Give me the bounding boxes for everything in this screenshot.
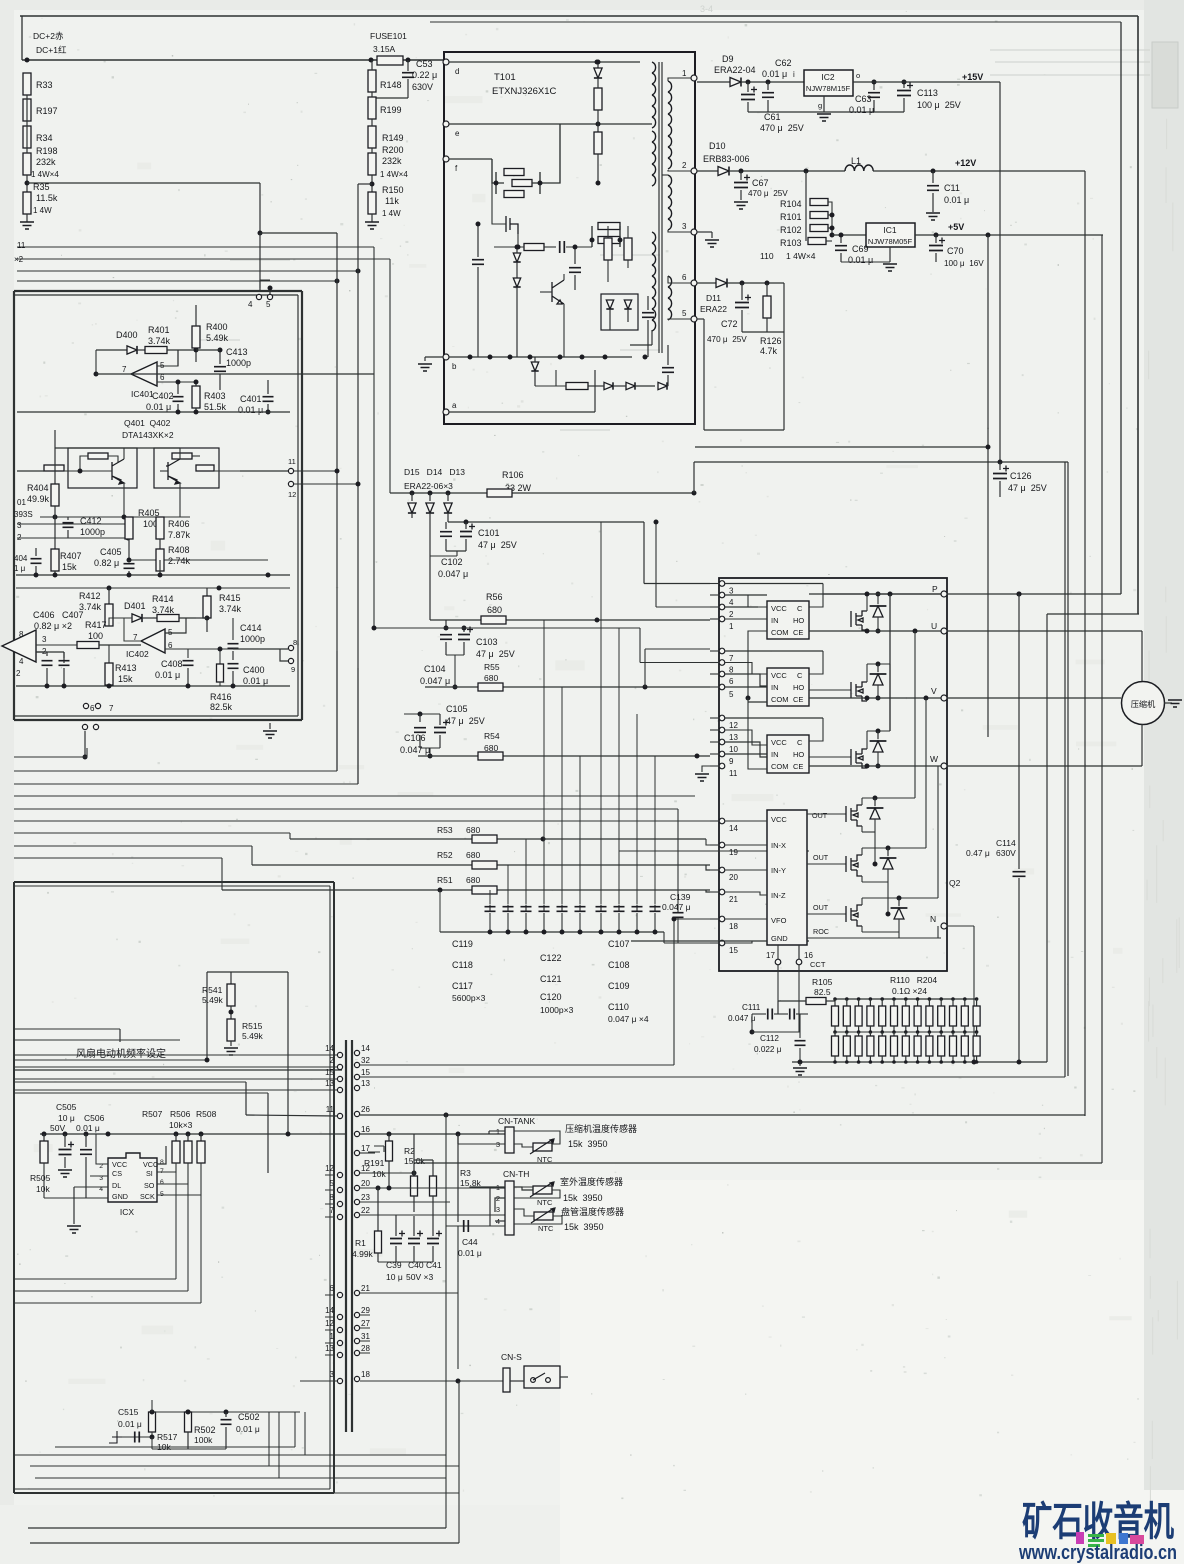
svg-text:13: 13 (325, 1344, 334, 1353)
resistor R2b (432, 1160, 434, 1176)
wire f (449, 158, 492, 160)
svg-text:14: 14 (325, 1044, 334, 1053)
compressor motor (1122, 682, 1165, 725)
wire C101 gnd (456, 551, 458, 556)
wire HO C (809, 756, 851, 758)
wire bus y447 (695, 446, 988, 448)
aux winding bottom (652, 232, 656, 243)
svg-text:0.047 μ ×4: 0.047 μ ×4 (608, 1014, 649, 1024)
svg-text:0.1Ω ×24: 0.1Ω ×24 (892, 986, 927, 996)
svg-text:CS: CS (112, 1169, 122, 1178)
svg-text:C401: C401 (240, 394, 262, 404)
svg-text:P: P (932, 584, 938, 594)
diode DM6 (898, 898, 900, 906)
svg-text:27: 27 (361, 1319, 370, 1328)
svg-text:e: e (455, 129, 460, 138)
connector main double line (345, 1040, 347, 1432)
svg-text:SI: SI (146, 1169, 153, 1178)
svg-text:20: 20 (729, 873, 738, 882)
svg-text:R200: R200 (382, 145, 404, 155)
diode DM4 (874, 798, 876, 806)
svg-text:C101: C101 (478, 528, 500, 538)
svg-text:U: U (931, 621, 937, 631)
svg-text:6: 6 (729, 677, 734, 686)
wire driver A (725, 583, 823, 585)
wire N inside (937, 926, 939, 938)
svg-text:D9: D9 (722, 54, 734, 64)
svg-text:R404: R404 (27, 483, 49, 493)
svg-text:COM: COM (771, 695, 789, 704)
svg-text:16: 16 (804, 951, 813, 960)
svg-text:VCC: VCC (771, 671, 787, 680)
diode D13 (447, 493, 449, 501)
svg-text:C414: C414 (240, 623, 262, 633)
svg-text:R54: R54 (484, 731, 500, 741)
svg-text:C406 C407: C406 C407 (33, 610, 84, 620)
svg-text:ERA22-04: ERA22-04 (714, 65, 756, 75)
svg-text:15k: 15k (62, 562, 77, 572)
svg-text:IN: IN (771, 683, 779, 692)
svg-text:232k: 232k (36, 157, 56, 167)
svg-text:C405: C405 (100, 547, 122, 557)
svg-text:4.99k: 4.99k (352, 1249, 374, 1259)
connector pin 5/20 (337, 1187, 342, 1192)
svg-text:R110 R204: R110 R204 (890, 975, 937, 985)
svg-text:R506: R506 (170, 1109, 191, 1119)
resistor divider (604, 238, 612, 260)
diode bottom left (531, 362, 538, 371)
svg-text:0.01 μ: 0.01 μ (146, 402, 171, 412)
svg-text:2: 2 (330, 1056, 335, 1065)
svg-text:VCC: VCC (143, 1160, 158, 1169)
svg-text:14: 14 (325, 1306, 334, 1315)
terminal V (941, 695, 947, 701)
svg-text:R104: R104 (780, 199, 802, 209)
core lines (658, 62, 660, 353)
wire bus y462 (694, 461, 1068, 463)
svg-text:ETXNJ326X1C: ETXNJ326X1C (492, 86, 557, 97)
svg-text:IN: IN (771, 616, 779, 625)
wire R52 row (252, 864, 710, 866)
svg-text:680: 680 (466, 875, 480, 885)
capacitor coupling (560, 241, 565, 253)
svg-text:R515: R515 (242, 1021, 263, 1031)
svg-text:W: W (930, 754, 938, 764)
diode DM3 (877, 731, 879, 739)
transistor Q402 box (154, 448, 219, 488)
svg-text:2: 2 (16, 669, 21, 678)
terminal a (443, 409, 449, 415)
svg-text:IC401: IC401 (131, 389, 154, 399)
capacitor C101 (445, 522, 447, 529)
secondary windings (668, 81, 672, 92)
pin 16 Q2 (798, 945, 800, 963)
svg-text:680: 680 (484, 673, 498, 683)
terminal f (443, 156, 449, 162)
pin 20 Q2 (719, 867, 725, 873)
svg-text:×2: ×2 (14, 255, 24, 264)
op-amp IC401 (131, 362, 157, 386)
svg-text:11: 11 (729, 769, 738, 778)
transistor Q401 box (68, 448, 137, 488)
svg-text:Q401 Q402: Q401 Q402 (124, 418, 171, 428)
wire DC+ bus (21, 16, 23, 60)
svg-text:17: 17 (766, 951, 775, 960)
pin 17 Q2 (777, 945, 779, 963)
wire pin15 row long (360, 1076, 1065, 1078)
resistor R197 (23, 99, 31, 121)
svg-text:R33: R33 (36, 80, 53, 90)
svg-text:C67: C67 (752, 178, 769, 188)
wire pins into block (14, 1054, 337, 1056)
wire fan bus lines (14, 1059, 207, 1061)
svg-text:FUSE101: FUSE101 (370, 31, 407, 41)
svg-text:HO: HO (793, 750, 804, 759)
svg-text:VCC: VCC (771, 815, 787, 824)
wire pin8 feed (374, 627, 640, 629)
connector pin 11/26 (337, 1113, 342, 1118)
svg-text:+15V: +15V (962, 72, 983, 82)
svg-text:NJW78M05F: NJW78M05F (868, 237, 913, 246)
wire P bus down (1017, 592, 1022, 597)
wire P rail (809, 593, 941, 595)
mosfet M2 (851, 682, 867, 701)
svg-text:R105: R105 (812, 977, 833, 987)
svg-text:49.9k: 49.9k (27, 494, 50, 504)
wire IC5 outputs (175, 1172, 177, 1279)
pin 4 Q2 (719, 592, 725, 598)
svg-text:R412: R412 (79, 591, 101, 601)
svg-text:R3: R3 (460, 1168, 471, 1178)
svg-text:C126: C126 (1010, 471, 1032, 481)
svg-text:3: 3 (42, 635, 47, 644)
svg-text:23: 23 (361, 1193, 370, 1202)
wire W rail (809, 765, 941, 767)
svg-text:C62: C62 (775, 58, 792, 68)
svg-text:9: 9 (291, 665, 295, 674)
svg-text:R508: R508 (196, 1109, 217, 1119)
wire C72 R126 bottom (742, 331, 784, 333)
svg-text:1 4W×4: 1 4W×4 (380, 170, 408, 179)
primary winding (652, 62, 656, 73)
capacitor C67 (740, 171, 742, 180)
op-amp IC402 (141, 629, 165, 653)
svg-text:8: 8 (160, 1159, 164, 1166)
svg-text:11: 11 (288, 457, 296, 466)
svg-text:2: 2 (729, 610, 734, 619)
svg-text:7: 7 (122, 365, 127, 374)
terminal 8 (288, 645, 293, 650)
wire R51 row (222, 889, 710, 891)
svg-text:GND: GND (771, 934, 788, 943)
wire HO A (619, 850, 809, 852)
svg-text:C400: C400 (243, 665, 265, 675)
svg-text:R35: R35 (33, 182, 50, 192)
terminal W (941, 763, 947, 769)
wire bus lines to inverter (14, 756, 87, 758)
terminal 5 top (267, 294, 272, 299)
capacitor C103 (445, 620, 447, 630)
wire rail y575 (16, 574, 290, 576)
svg-text:b: b (452, 362, 457, 371)
terminal 2 (691, 168, 697, 174)
wire +5V (915, 234, 1103, 236)
svg-text:0.01 μ: 0.01 μ (762, 69, 787, 79)
wire a (449, 411, 595, 413)
wire pin2 feed (655, 522, 657, 607)
svg-text:15k 3950: 15k 3950 (563, 1193, 603, 1203)
wire pin18 feed (674, 918, 710, 920)
svg-text:13: 13 (729, 733, 738, 742)
svg-text:3.15A: 3.15A (373, 44, 396, 54)
svg-text:50V: 50V (50, 1123, 65, 1133)
svg-text:3: 3 (729, 587, 734, 596)
parallel resistors cluster (504, 169, 524, 176)
svg-text:11.5k: 11.5k (36, 193, 58, 203)
svg-text:VCC: VCC (771, 738, 787, 747)
capacitor C61 (747, 82, 749, 92)
svg-text:21: 21 (361, 1284, 370, 1293)
svg-text:1: 1 (682, 69, 687, 78)
wire top rail Q (55, 447, 180, 449)
resistor R126 (766, 283, 768, 296)
svg-text:8: 8 (729, 666, 734, 675)
ground tap3 (697, 231, 712, 233)
svg-text:01: 01 (17, 498, 26, 507)
svg-text:R51: R51 (437, 875, 453, 885)
svg-text:1000p×3: 1000p×3 (540, 1005, 574, 1015)
wire pin17 row (360, 1152, 375, 1154)
svg-text:4.7k: 4.7k (760, 346, 778, 356)
diode D15 (411, 493, 413, 501)
wire rail y412 (17, 411, 290, 413)
svg-text:C102: C102 (441, 557, 463, 567)
pin 1 Q2 (719, 616, 725, 622)
connector pin 6/21 (337, 1292, 342, 1297)
svg-text:12: 12 (729, 721, 738, 730)
wire P to M2 (889, 594, 891, 664)
svg-text:IN-X: IN-X (771, 841, 786, 850)
svg-text:12: 12 (288, 490, 296, 499)
capacitor bottom mid (642, 313, 654, 318)
svg-text:DC+1红: DC+1红 (36, 45, 67, 55)
svg-text:15.0k: 15.0k (404, 1156, 426, 1166)
svg-text:C105: C105 (446, 704, 468, 714)
svg-text:0.82 μ ×2: 0.82 μ ×2 (34, 621, 72, 631)
wire R541 top (207, 971, 288, 973)
svg-text:C505: C505 (56, 1102, 77, 1112)
diode D14 (429, 493, 431, 501)
mosfet Q inside (506, 216, 518, 234)
svg-text:C53: C53 (416, 59, 433, 69)
svg-text:0.047 μ: 0.047 μ (400, 745, 430, 755)
resistor R416 (219, 649, 221, 664)
wire bus lines upper (17, 246, 374, 248)
wire V to M5 (925, 698, 927, 848)
ground C112 (799, 1062, 801, 1066)
svg-text:NTC: NTC (537, 1155, 553, 1164)
svg-text:1 4W: 1 4W (33, 206, 52, 215)
svg-text:www.crystalradio.cn: www.crystalradio.cn (1018, 1542, 1177, 1564)
capacitor inside left (472, 260, 484, 265)
svg-text:COM: COM (771, 628, 789, 637)
wire tap5 (697, 318, 704, 320)
svg-text:CE: CE (793, 762, 803, 771)
svg-text:R507: R507 (142, 1109, 163, 1119)
wire driver C (725, 717, 823, 719)
wire driver D pins (725, 820, 767, 822)
svg-text:R150: R150 (382, 185, 404, 195)
svg-text:CE: CE (793, 628, 803, 637)
svg-text:DL: DL (112, 1181, 121, 1190)
wire +5V net corner (414, 1162, 1102, 1164)
svg-text:C106: C106 (404, 733, 426, 743)
wire R506 down (157, 1163, 188, 1184)
svg-text:R148: R148 (380, 80, 402, 90)
wire +15V (853, 81, 1000, 83)
svg-text:630V: 630V (412, 82, 433, 92)
resistor R149 (368, 126, 376, 148)
svg-text:5: 5 (330, 1179, 335, 1188)
terminal 3 (691, 229, 697, 235)
svg-text:3: 3 (330, 1370, 335, 1379)
svg-text:CCT: CCT (810, 960, 826, 969)
capacitor C11 (932, 171, 934, 183)
svg-text:C408: C408 (161, 659, 183, 669)
svg-text:R541: R541 (202, 985, 223, 995)
svg-text:VCC: VCC (771, 604, 787, 613)
svg-text:C107: C107 (608, 939, 630, 949)
gate driver V-A (767, 668, 809, 706)
wire M5 source (887, 882, 889, 914)
svg-text:R34: R34 (36, 133, 53, 143)
svg-text:OUT: OUT (813, 853, 829, 862)
svg-text:R56: R56 (486, 592, 503, 602)
terminal 12 (288, 481, 293, 486)
svg-text:NTC: NTC (538, 1224, 554, 1233)
svg-text:R416: R416 (210, 692, 232, 702)
svg-text:N: N (930, 914, 936, 924)
resistor inside mid (594, 132, 602, 154)
svg-text:R102: R102 (780, 225, 802, 235)
wire pin32 row long (360, 1064, 674, 1066)
svg-text:5.49k: 5.49k (242, 1031, 264, 1041)
mosfet M6 (846, 905, 862, 926)
svg-text:+5V: +5V (948, 222, 964, 232)
svg-text:C506: C506 (84, 1113, 105, 1123)
wire bank to ic (663, 932, 665, 943)
ground motor (1164, 702, 1172, 704)
svg-text:R149: R149 (382, 133, 404, 143)
wire op amp in (36, 651, 64, 653)
svg-text:5: 5 (266, 300, 271, 309)
svg-text:C72: C72 (721, 319, 738, 329)
wire OUT2 (807, 863, 846, 865)
capacitor right bottom (662, 368, 674, 373)
wire V rail (809, 697, 941, 699)
connector pin 2/32 (337, 1064, 342, 1069)
svg-text:0.01 μ: 0.01 μ (118, 1419, 142, 1429)
wire pin11 (246, 1115, 337, 1116)
wire W to M6 (937, 766, 939, 898)
svg-text:Q2: Q2 (949, 878, 961, 888)
wire R54 row (418, 755, 710, 757)
capacitor snubber (569, 268, 581, 273)
wire bus drops upper (373, 247, 375, 628)
wire bottom nest 4 (35, 1477, 446, 1479)
svg-text:C61: C61 (764, 112, 781, 122)
svg-text:1 μ: 1 μ (14, 564, 26, 573)
svg-text:R198: R198 (36, 146, 58, 156)
wire driver B (725, 650, 823, 652)
wire pin21 row (360, 1292, 458, 1294)
terminal 1 (691, 75, 697, 81)
mosfet M1 (851, 611, 867, 630)
svg-text:13: 13 (361, 1079, 370, 1088)
wire P out (947, 593, 1121, 595)
svg-text:9: 9 (729, 757, 734, 766)
svg-text:压缩机温度传感器: 压缩机温度传感器 (565, 1123, 637, 1134)
svg-text:a: a (452, 401, 457, 410)
svg-text:680: 680 (466, 825, 480, 835)
svg-text:OUT: OUT (813, 903, 829, 912)
svg-text:8: 8 (330, 1193, 335, 1202)
svg-text:R414: R414 (152, 594, 174, 604)
main driver block (767, 810, 807, 945)
wire R198 junction (26, 95, 28, 153)
svg-text:GND: GND (112, 1192, 128, 1201)
svg-text:47 μ 25V: 47 μ 25V (1008, 483, 1047, 493)
diode pair box (601, 294, 638, 330)
svg-text:4: 4 (248, 300, 253, 309)
resistor R148 (368, 70, 376, 92)
op-amp left partial (2, 630, 36, 662)
wire OUT3 (807, 913, 846, 915)
svg-text:C515: C515 (118, 1407, 139, 1417)
pin 11 Q2 (719, 763, 725, 769)
wire bottom nest 3 (30, 1465, 459, 1467)
capacitor C40 (413, 1216, 415, 1236)
svg-text:R197: R197 (36, 106, 58, 116)
wire cap gnd rail (378, 1261, 433, 1263)
svg-text:15: 15 (729, 946, 738, 955)
pin 7 Q2 (719, 648, 725, 654)
svg-text:ERA22: ERA22 (700, 304, 727, 314)
svg-text:3.74k: 3.74k (219, 604, 242, 614)
svg-text:D401: D401 (124, 601, 146, 611)
svg-text:100 μ 16V: 100 μ 16V (944, 259, 984, 268)
svg-text:1 4W: 1 4W (382, 209, 401, 218)
pin 15 Q2 (719, 940, 725, 946)
svg-text:0.047 μ: 0.047 μ (438, 569, 468, 579)
pin 13 Q2 (719, 727, 725, 733)
pin 18 Q2 (719, 916, 725, 922)
inverter IC Q2 outline (719, 578, 947, 971)
svg-text:DTA143XK×2: DTA143XK×2 (122, 430, 174, 440)
wire bottom nest 1 (15, 1454, 446, 1456)
svg-text:ERA22-06×3: ERA22-06×3 (404, 481, 453, 491)
control block outline (14, 290, 302, 292)
svg-text:d: d (455, 67, 459, 76)
svg-text:0.22 μ: 0.22 μ (412, 70, 437, 80)
ground b (424, 357, 426, 361)
wire main rail y1134 (40, 1133, 346, 1135)
svg-text:C113: C113 (917, 88, 938, 98)
svg-text:0.01 μ: 0.01 μ (458, 1248, 482, 1258)
svg-text:ICX: ICX (120, 1207, 135, 1217)
svg-text:470 μ 25V: 470 μ 25V (760, 123, 804, 133)
svg-text:470 μ 25V: 470 μ 25V (748, 189, 788, 198)
